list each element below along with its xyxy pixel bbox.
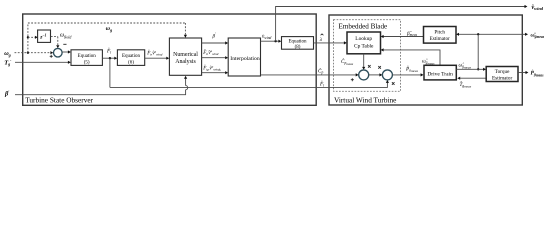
Embedded Blade dashed sub-box bbox=[334, 20, 401, 92]
block Equation (8) bbox=[282, 37, 314, 50]
wire: dashed drop to summing circle bbox=[57, 37, 59, 47]
svg-text:ωgold: ωgold bbox=[60, 33, 72, 40]
hop bridge over F_t line bbox=[186, 86, 188, 90]
wire: beta' input run bbox=[15, 90, 186, 95]
svg-text:Drive Train: Drive Train bbox=[427, 72, 453, 78]
wire: Drive Train to Torque Estimator bbox=[456, 68, 484, 70]
arrow into Eq5 upper bbox=[68, 50, 71, 53]
arrow into circle2 left bbox=[379, 73, 382, 76]
wire: beta_meas from Pitch Estimator to Lookup bbox=[383, 36, 424, 38]
Virtual Wind Turbine container box bbox=[329, 15, 522, 105]
wire: T'_g input bbox=[15, 61, 69, 63]
svg-text:Virtual Wind Turbine: Virtual Wind Turbine bbox=[334, 95, 396, 104]
plus sign circle1 bbox=[351, 78, 354, 81]
node junction at (478.2,69.3) bbox=[477, 68, 479, 70]
arrow into Eq5 lower bbox=[68, 61, 71, 64]
wire: NA to Interp line A (beta') bbox=[202, 42, 226, 44]
wire: bottom run y=87.4 to circle2 bbox=[110, 82, 388, 88]
svg-text:Turbine State Observer: Turbine State Observer bbox=[25, 96, 93, 105]
times sign circle2 top-left bbox=[378, 66, 381, 69]
node junction feeding z^-1 bbox=[27, 36, 29, 38]
svg-text:Estimator: Estimator bbox=[430, 36, 450, 42]
svg-text:Pitch: Pitch bbox=[434, 29, 445, 35]
arrow P_g_meas output bbox=[526, 71, 529, 74]
Turbine State Observer container box bbox=[23, 14, 317, 105]
minus sign for sum bbox=[63, 43, 66, 45]
block Pitch Estimator bbox=[424, 27, 457, 44]
wire: Lookup bottom to circle1 (Cp_meas) bbox=[363, 54, 365, 68]
svg-text:Embedded Blade: Embedded Blade bbox=[339, 22, 388, 30]
svg-text:Cp Table: Cp Table bbox=[354, 43, 374, 49]
arrow into Lookup right upper bbox=[381, 35, 384, 38]
wire: junction drop x=109.9 bbox=[109, 58, 111, 87]
arrow into circle1 left bbox=[356, 73, 359, 76]
block Torque Estimator bbox=[486, 67, 518, 82]
wire: NA to Interp line B bbox=[202, 57, 226, 59]
node junction at 478.2 bbox=[477, 33, 479, 35]
block Interpolation bbox=[228, 38, 260, 76]
wire: omega_g dashed input bbox=[15, 52, 52, 54]
arrow into Eq8 bbox=[278, 40, 281, 43]
wire: Cp from Interpolation bottom-right to circle1 bbox=[261, 74, 357, 76]
wire: NA to Interp line C bbox=[202, 72, 226, 74]
svg-text:Torque: Torque bbox=[495, 69, 510, 75]
arrow omega_g_meas output bbox=[525, 33, 528, 36]
wire: Torque output P_g_meas bbox=[518, 72, 526, 74]
arrow into NA top bbox=[184, 35, 187, 38]
wire: dashed vertical riser x=27.9 bbox=[27, 23, 29, 53]
plus sign for sum bbox=[50, 55, 53, 58]
arrow into Lookup bbox=[344, 41, 347, 44]
svg-text:ωg: ωg bbox=[106, 26, 112, 32]
wire: Eq5 to Eq6 bbox=[102, 57, 115, 59]
svg-text:Lookup: Lookup bbox=[355, 36, 372, 42]
node junction under F_t bbox=[109, 57, 111, 59]
arrow into Eq6 bbox=[114, 57, 117, 60]
times sign circle2 bottom-right bbox=[392, 82, 395, 85]
svg-text:Equation: Equation bbox=[78, 54, 97, 59]
block Numerical Analysis bbox=[169, 38, 201, 75]
node junction v_wind bbox=[274, 40, 276, 42]
wire: sum output to Equation (5) bbox=[62, 51, 69, 53]
arrow into Interp A bbox=[225, 41, 228, 44]
svg-text:Numerical: Numerical bbox=[173, 52, 198, 58]
arrow into Torque left bbox=[483, 68, 486, 71]
svg-text:Estimator: Estimator bbox=[492, 75, 512, 81]
wire: Eq6 to Numerical Analysis bbox=[145, 57, 167, 59]
svg-text:Analysis: Analysis bbox=[175, 59, 196, 65]
wire: riser x=478.2 between speed line and DT-TE line bbox=[477, 34, 479, 69]
wire: v_wind riser and top run to output bbox=[276, 7, 525, 42]
arrow into NA bottom bbox=[184, 76, 187, 79]
multiply circle 1 bbox=[359, 70, 369, 80]
wire: dashed drop into Numerical Analysis top bbox=[184, 23, 186, 35]
node junction on omega_g (lower) bbox=[27, 52, 29, 54]
arrow into Interp B bbox=[225, 56, 228, 59]
arrow into NA left bbox=[166, 57, 169, 60]
arrow into circle1 top bbox=[362, 67, 365, 70]
wire: omega_g_meas horizontal y=34.3 bbox=[458, 33, 525, 35]
block z^-1 bbox=[38, 30, 51, 42]
multiply circle 2 bbox=[382, 70, 392, 80]
wire: omega_g_meas from Drive Train top to Lookup bbox=[383, 50, 440, 65]
block Lookup Cp Table bbox=[347, 32, 381, 54]
arrow into Pitch right bbox=[456, 33, 459, 36]
arrow into sum circle top bbox=[56, 45, 59, 48]
arrow v_wind output bbox=[525, 5, 528, 8]
summing circle (omega comparison) bbox=[54, 48, 63, 57]
times sign circle1 top-right bbox=[368, 65, 371, 68]
svg-text:(5): (5) bbox=[84, 60, 90, 65]
svg-text:(6): (6) bbox=[128, 60, 134, 65]
svg-text:Interpolation: Interpolation bbox=[230, 56, 260, 62]
arrow into sum circle bbox=[50, 51, 53, 54]
arrow into Drive Train left bbox=[421, 73, 424, 76]
arrow into Lookup right lower bbox=[381, 48, 384, 51]
arrow into z^-1 bbox=[35, 36, 38, 39]
arrow up into circle2 bottom bbox=[386, 80, 389, 83]
arrow into Interp C bbox=[225, 71, 228, 74]
wire: dashed into z^-1 bbox=[28, 36, 36, 38]
wire: circle1 to circle2 bbox=[369, 74, 381, 76]
block Equation (5) bbox=[71, 50, 102, 66]
svg-text:Equation: Equation bbox=[122, 54, 141, 59]
wire: circle2 to Drive Train (P_a_meas) bbox=[392, 74, 421, 76]
svg-text:v̂wind: v̂wind bbox=[531, 5, 543, 11]
svg-text:Equation: Equation bbox=[288, 39, 307, 44]
wire: Interp to Eq8 (v_wind) bbox=[261, 40, 280, 42]
wire: dashed top run y=23 bbox=[28, 22, 186, 24]
wire: beta' riser into NA bottom bbox=[185, 78, 187, 86]
svg-text:(8): (8) bbox=[295, 45, 301, 50]
block Equation (6) bbox=[117, 50, 144, 66]
wire: Eq8 to Lookup (lambda) bbox=[314, 42, 345, 44]
wire: Torque feedback to Drive Train (T_g_meas) bbox=[459, 77, 486, 79]
wire: dash-dot z^-1 to omega_g_old corner bbox=[51, 36, 58, 38]
block Drive Train bbox=[424, 65, 456, 80]
arrow into Drive Train right bbox=[457, 77, 460, 80]
